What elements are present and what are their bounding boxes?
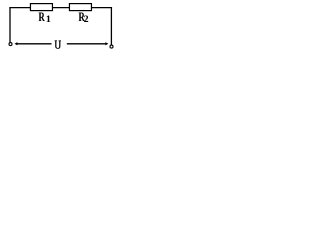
label U [55,40,61,49]
wire left vertical [9,7,11,42]
wire right vertical [110,7,112,45]
terminal circle left [9,43,12,46]
voltage arrow line left segment [17,43,52,45]
svg-text:R: R [39,10,46,24]
voltage arrow right head [105,42,108,45]
voltage arrow left head [15,42,18,45]
resistor R2 [69,4,91,11]
svg-text:2: 2 [84,15,89,25]
terminal circle right [110,45,113,48]
svg-text:1: 1 [46,15,51,25]
voltage arrow line right segment [67,43,107,45]
wire between resistors [52,7,69,9]
resistor R1 [30,4,52,11]
wire top-left horizontal [9,7,30,9]
wire top-right horizontal [91,7,112,9]
